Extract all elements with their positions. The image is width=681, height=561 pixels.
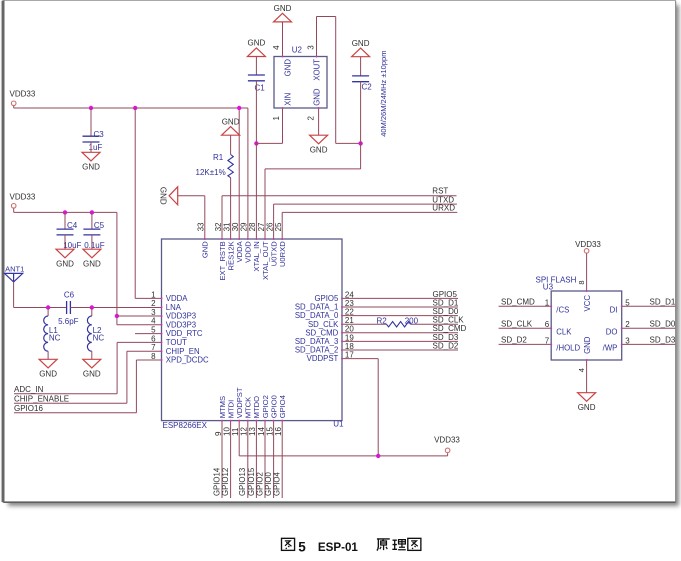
svg-text:GND: GND bbox=[313, 88, 322, 106]
svg-text:/WP: /WP bbox=[603, 344, 618, 353]
svg-text:VCC: VCC bbox=[583, 295, 592, 312]
svg-text:GND: GND bbox=[578, 403, 596, 412]
svg-text:CHIP_ENABLE: CHIP_ENABLE bbox=[14, 395, 69, 404]
svg-text:TOUT: TOUT bbox=[166, 338, 187, 347]
svg-text:16: 16 bbox=[274, 427, 283, 436]
svg-text:LNA: LNA bbox=[166, 303, 182, 312]
svg-text:DI: DI bbox=[610, 306, 618, 315]
svg-text:12K±1%: 12K±1% bbox=[196, 168, 226, 177]
svg-text:GND: GND bbox=[583, 336, 592, 354]
svg-text:2: 2 bbox=[625, 320, 630, 329]
svg-text:ESP-01: ESP-01 bbox=[318, 541, 359, 554]
svg-text:25: 25 bbox=[274, 222, 283, 231]
svg-text:5.6pF: 5.6pF bbox=[58, 317, 79, 326]
svg-text:200: 200 bbox=[405, 317, 419, 326]
svg-text:VDD33: VDD33 bbox=[10, 193, 36, 202]
svg-text:4: 4 bbox=[272, 45, 281, 50]
svg-text:DO: DO bbox=[606, 328, 618, 337]
svg-text:VDD33: VDD33 bbox=[575, 240, 601, 249]
svg-text:R1: R1 bbox=[213, 153, 224, 162]
svg-text:/CS: /CS bbox=[556, 306, 569, 315]
svg-text:7: 7 bbox=[545, 336, 550, 345]
svg-text:GND: GND bbox=[284, 59, 293, 77]
svg-text:C4: C4 bbox=[67, 221, 78, 230]
svg-text:GND: GND bbox=[248, 39, 266, 48]
svg-text:SD_D2: SD_D2 bbox=[501, 336, 527, 345]
svg-text:GND: GND bbox=[201, 241, 210, 258]
svg-text:CLK: CLK bbox=[556, 328, 572, 337]
svg-text:NC: NC bbox=[93, 333, 105, 342]
svg-text:GPIO16: GPIO16 bbox=[14, 404, 43, 413]
svg-text:5: 5 bbox=[625, 298, 630, 307]
svg-text:3: 3 bbox=[625, 336, 630, 345]
svg-text:XPD_DCDC: XPD_DCDC bbox=[166, 356, 209, 365]
svg-text:5: 5 bbox=[298, 539, 306, 554]
svg-text:2: 2 bbox=[307, 116, 316, 121]
svg-text:GND: GND bbox=[39, 370, 57, 379]
svg-text:3: 3 bbox=[307, 45, 316, 50]
svg-text:GND: GND bbox=[159, 187, 168, 205]
svg-text:1: 1 bbox=[545, 298, 550, 307]
svg-text:6: 6 bbox=[545, 320, 550, 329]
svg-text:VDDA: VDDA bbox=[166, 294, 188, 303]
svg-text:XIN: XIN bbox=[284, 93, 293, 106]
svg-text:GND: GND bbox=[274, 4, 292, 13]
svg-text:33: 33 bbox=[197, 222, 206, 231]
svg-text:NC: NC bbox=[49, 333, 61, 342]
svg-text:U3: U3 bbox=[543, 282, 554, 291]
svg-text:CHIP_EN: CHIP_EN bbox=[166, 347, 200, 356]
svg-text:C3: C3 bbox=[94, 130, 105, 139]
svg-text:SD_CLK: SD_CLK bbox=[501, 319, 533, 328]
svg-text:8: 8 bbox=[577, 280, 586, 284]
svg-text:U1: U1 bbox=[333, 420, 344, 429]
svg-text:R2: R2 bbox=[377, 317, 388, 326]
svg-text:SD_D2: SD_D2 bbox=[433, 341, 459, 350]
svg-text:XOUT: XOUT bbox=[313, 59, 322, 81]
svg-text:GPIO12: GPIO12 bbox=[221, 468, 230, 496]
svg-text:GND: GND bbox=[83, 259, 101, 268]
svg-text:URXD: URXD bbox=[432, 204, 455, 213]
svg-text:GND: GND bbox=[56, 259, 74, 268]
svg-text:GND: GND bbox=[352, 39, 370, 48]
svg-text:4: 4 bbox=[577, 368, 586, 372]
svg-text:GND: GND bbox=[82, 163, 100, 172]
svg-text:C6: C6 bbox=[64, 291, 75, 300]
svg-text:40M/26M/24MHz ±10ppm: 40M/26M/24MHz ±10ppm bbox=[379, 51, 388, 137]
svg-text:C5: C5 bbox=[94, 221, 105, 230]
svg-text:U2: U2 bbox=[292, 46, 303, 55]
svg-text:U0RXD: U0RXD bbox=[278, 241, 287, 267]
svg-text:VDDPST: VDDPST bbox=[307, 354, 339, 363]
svg-text:ESP8266EX: ESP8266EX bbox=[163, 421, 208, 430]
svg-text:GND: GND bbox=[83, 370, 101, 379]
svg-text:VDD_RTC: VDD_RTC bbox=[166, 329, 203, 338]
svg-text:ADC_IN: ADC_IN bbox=[14, 385, 44, 394]
svg-text:VDD33: VDD33 bbox=[10, 90, 36, 99]
svg-text:VDD3P3: VDD3P3 bbox=[166, 320, 196, 329]
svg-text:GPIO4: GPIO4 bbox=[273, 472, 282, 496]
svg-text:SPI FLASH: SPI FLASH bbox=[536, 275, 577, 284]
svg-text:RST: RST bbox=[432, 187, 448, 196]
svg-text:GND: GND bbox=[310, 145, 328, 154]
svg-text:2: 2 bbox=[151, 299, 156, 308]
svg-text:SD_D0: SD_D0 bbox=[650, 319, 676, 328]
svg-text:1: 1 bbox=[272, 116, 281, 121]
svg-text:VDD3P3: VDD3P3 bbox=[166, 312, 196, 321]
svg-text:SD_CMD: SD_CMD bbox=[501, 298, 535, 307]
svg-text:/HOLD: /HOLD bbox=[556, 344, 580, 353]
svg-text:GPIO4: GPIO4 bbox=[278, 395, 287, 418]
svg-text:ANT1: ANT1 bbox=[5, 264, 24, 273]
svg-text:VDD33: VDD33 bbox=[434, 435, 460, 444]
svg-text:SD_D3: SD_D3 bbox=[650, 336, 676, 345]
svg-text:SD_D1: SD_D1 bbox=[650, 298, 676, 307]
svg-text:C2: C2 bbox=[362, 82, 373, 91]
svg-text:GND: GND bbox=[222, 117, 240, 126]
